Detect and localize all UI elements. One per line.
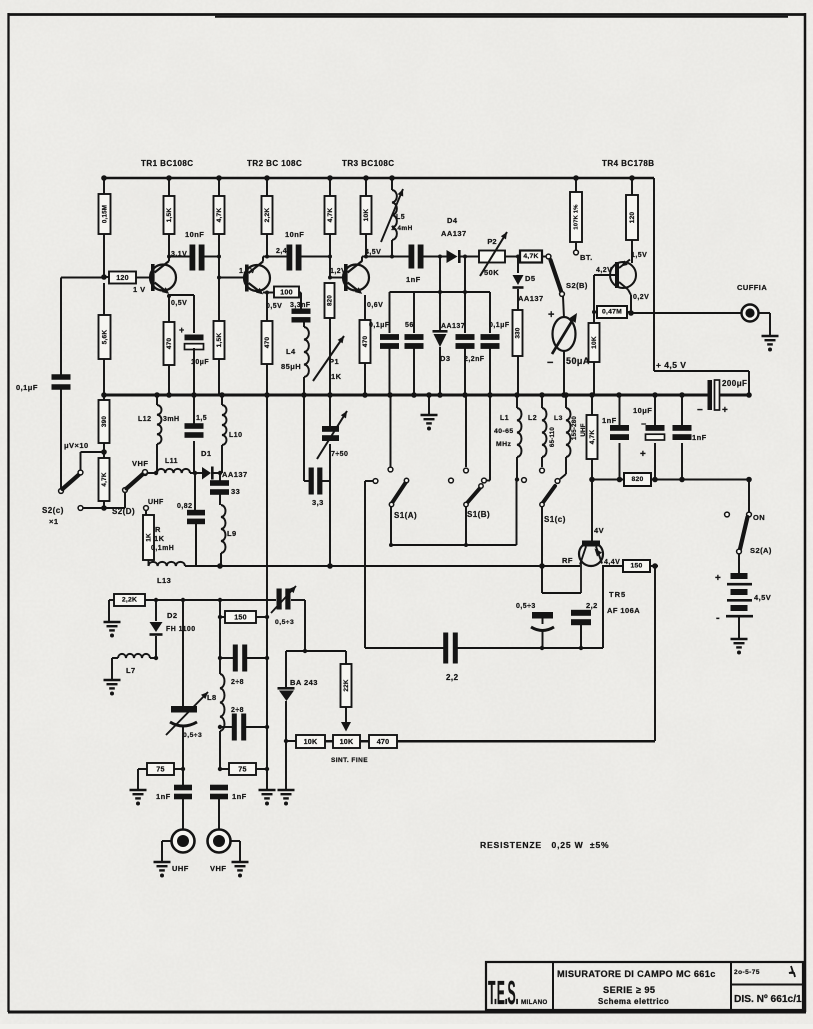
svg-text:0,2V: 0,2V: [633, 294, 649, 301]
svg-text:0,5÷3: 0,5÷3: [183, 732, 202, 739]
svg-text:40-65: 40-65: [494, 428, 514, 435]
svg-text:RF: RF: [562, 556, 573, 565]
svg-text:0,1μF: 0,1μF: [16, 383, 38, 392]
svg-text:L9: L9: [227, 529, 237, 538]
svg-text:S1(B): S1(B): [467, 510, 490, 519]
svg-text:200μF: 200μF: [722, 379, 747, 388]
svg-text:330: 330: [515, 327, 522, 338]
svg-text:L2: L2: [528, 415, 537, 422]
svg-text:155-280: 155-280: [571, 416, 578, 440]
svg-text:0,47M: 0,47M: [602, 309, 622, 316]
svg-text:Schema elettrico: Schema elettrico: [598, 997, 669, 1006]
svg-text:0,5V: 0,5V: [266, 303, 282, 310]
svg-text:4,7K: 4,7K: [216, 208, 223, 223]
svg-text:7÷50: 7÷50: [331, 451, 348, 458]
svg-text:1nF: 1nF: [156, 792, 171, 801]
svg-text:150: 150: [631, 563, 643, 570]
svg-text:0,15M: 0,15M: [102, 205, 109, 223]
svg-text:820: 820: [327, 295, 334, 306]
svg-text:+: +: [722, 405, 728, 416]
svg-text:120: 120: [116, 273, 129, 282]
svg-text:50K: 50K: [484, 268, 499, 277]
svg-text:3mH: 3mH: [163, 416, 180, 423]
svg-text:TR5: TR5: [609, 590, 626, 599]
svg-text:AF 106A: AF 106A: [607, 606, 640, 615]
svg-text:120: 120: [629, 212, 636, 224]
svg-text:CUFFIA: CUFFIA: [737, 283, 767, 292]
svg-text:−: −: [547, 357, 554, 369]
svg-text:50μA: 50μA: [566, 356, 590, 366]
svg-text:2,2K: 2,2K: [122, 597, 137, 604]
svg-text:S2(D): S2(D): [112, 507, 135, 516]
svg-text:4,5V: 4,5V: [365, 249, 381, 256]
svg-text:1K: 1K: [146, 533, 153, 542]
svg-text:BA 243: BA 243: [290, 678, 318, 687]
svg-text:1,1V: 1,1V: [239, 268, 255, 275]
svg-text:MISURATORE DI CAMPO MC 661c: MISURATORE DI CAMPO MC 661c: [557, 969, 716, 979]
svg-text:L5: L5: [396, 214, 405, 221]
svg-text:1nF: 1nF: [692, 433, 707, 442]
svg-text:1nF: 1nF: [406, 275, 421, 284]
svg-text:L11: L11: [165, 458, 178, 465]
svg-text:+: +: [179, 325, 185, 335]
svg-text:4,2V: 4,2V: [596, 267, 612, 274]
svg-text:0,1μF: 0,1μF: [489, 322, 510, 329]
svg-text:TR1 BC108C: TR1 BC108C: [141, 159, 194, 168]
svg-text:D3: D3: [440, 354, 451, 363]
svg-text:S1(c): S1(c): [544, 515, 566, 524]
svg-text:10nF: 10nF: [285, 230, 304, 239]
svg-text:R: R: [155, 525, 161, 534]
svg-text:2,2nF: 2,2nF: [464, 356, 485, 363]
svg-text:85μH: 85μH: [281, 362, 301, 371]
svg-text:UHF: UHF: [148, 499, 164, 506]
svg-text:DIS. Nº 661c/1: DIS. Nº 661c/1: [734, 994, 802, 1005]
svg-text:4,7K: 4,7K: [327, 208, 334, 223]
svg-text:470: 470: [166, 338, 173, 350]
svg-text:VHF: VHF: [210, 864, 226, 873]
svg-text:100: 100: [280, 288, 293, 297]
svg-text:150: 150: [234, 613, 247, 622]
svg-text:0,6V: 0,6V: [367, 302, 383, 309]
svg-text:4,7K: 4,7K: [589, 430, 596, 445]
svg-text:390: 390: [101, 416, 108, 428]
svg-text:L3: L3: [554, 415, 563, 422]
svg-text:UHF: UHF: [172, 864, 189, 873]
svg-text:AA137: AA137: [518, 294, 544, 303]
svg-text:3,3nF: 3,3nF: [290, 302, 311, 309]
svg-text:4V: 4V: [594, 526, 604, 535]
svg-text:S2(A): S2(A): [750, 546, 772, 555]
svg-text:TR4 BC178B: TR4 BC178B: [602, 159, 655, 168]
svg-text:22K: 22K: [343, 679, 350, 692]
svg-text:L7: L7: [126, 666, 136, 675]
svg-text:4,7K: 4,7K: [523, 253, 538, 260]
svg-text:65-110: 65-110: [549, 427, 556, 447]
svg-text:TR3 BC108C: TR3 BC108C: [342, 159, 395, 168]
svg-text:ON: ON: [753, 513, 765, 522]
svg-text:0,1μF: 0,1μF: [369, 322, 390, 329]
svg-text:2÷8: 2÷8: [231, 679, 244, 686]
svg-text:VHF: VHF: [132, 459, 148, 468]
svg-text:1,5V: 1,5V: [631, 252, 647, 259]
svg-text:S2(c): S2(c): [42, 506, 64, 515]
svg-text:4,4V: 4,4V: [604, 559, 620, 566]
svg-text:P2: P2: [487, 237, 496, 246]
svg-text:+ 4,5 V: + 4,5 V: [656, 360, 686, 370]
svg-text:1,4mH: 1,4mH: [391, 225, 413, 232]
svg-text:L10: L10: [229, 432, 242, 439]
svg-text:3,3: 3,3: [312, 498, 324, 507]
svg-text:L4: L4: [286, 347, 296, 356]
svg-text:+: +: [548, 309, 555, 321]
svg-text:1,5K: 1,5K: [216, 333, 223, 348]
svg-text:D5: D5: [525, 274, 536, 283]
svg-text:820: 820: [632, 476, 644, 483]
svg-text:μV×10: μV×10: [64, 441, 89, 450]
svg-text:−: −: [697, 405, 703, 416]
svg-text:MILANO: MILANO: [521, 999, 548, 1006]
svg-text:0,1mH: 0,1mH: [151, 545, 174, 552]
svg-text:2o-5-75: 2o-5-75: [734, 969, 760, 976]
svg-text:470: 470: [377, 737, 390, 746]
svg-text:0,5V: 0,5V: [171, 300, 187, 307]
svg-text:UHF: UHF: [580, 423, 587, 436]
svg-text:L13: L13: [157, 576, 171, 585]
svg-text:2÷8: 2÷8: [231, 707, 244, 714]
svg-text:D4: D4: [447, 216, 458, 225]
svg-text:1nF: 1nF: [602, 416, 617, 425]
svg-text:RESISTENZE 0,25 W ±5%: RESISTENZE 0,25 W ±5%: [480, 840, 609, 850]
svg-text:10K: 10K: [591, 336, 598, 349]
svg-text:10K: 10K: [304, 737, 318, 746]
svg-text:5,6K: 5,6K: [102, 330, 109, 345]
svg-text:10K: 10K: [363, 209, 370, 222]
svg-text:1K: 1K: [154, 534, 165, 543]
svg-text:AA137: AA137: [441, 323, 465, 330]
svg-text:10K: 10K: [340, 737, 354, 746]
svg-text:4,5V: 4,5V: [754, 593, 771, 602]
svg-text:2,2: 2,2: [586, 601, 598, 610]
svg-text:75: 75: [156, 765, 164, 774]
svg-text:75: 75: [238, 765, 246, 774]
svg-text:AA137: AA137: [441, 229, 467, 238]
svg-text:MHz: MHz: [496, 441, 511, 448]
svg-text:-: -: [716, 612, 720, 624]
svg-text:FH 1100: FH 1100: [166, 626, 196, 633]
svg-text:2,2: 2,2: [446, 673, 459, 682]
svg-text:56: 56: [405, 322, 414, 329]
svg-text:BT.: BT.: [580, 253, 593, 262]
svg-text:L1: L1: [500, 415, 509, 422]
svg-text:10μF: 10μF: [633, 406, 652, 415]
svg-text:107K 1%: 107K 1%: [574, 204, 580, 229]
svg-text:10nF: 10nF: [185, 230, 204, 239]
svg-text:D1: D1: [201, 449, 212, 458]
svg-text:SINT. FINE: SINT. FINE: [331, 757, 368, 764]
svg-text:470: 470: [362, 336, 369, 348]
svg-text:1,5: 1,5: [196, 415, 207, 422]
svg-text:S2(B): S2(B): [566, 281, 588, 290]
svg-text:+: +: [715, 573, 721, 584]
svg-text:1nF: 1nF: [232, 792, 247, 801]
svg-text:T.E.S.: T.E.S.: [488, 975, 518, 1012]
svg-text:1 V: 1 V: [133, 285, 146, 294]
svg-text:×1: ×1: [49, 517, 58, 526]
svg-text:SERIE ≥ 95: SERIE ≥ 95: [603, 985, 655, 995]
svg-text:L8: L8: [207, 693, 217, 702]
svg-text:1K: 1K: [331, 372, 342, 381]
svg-text:AA137: AA137: [222, 470, 248, 479]
svg-text:+: +: [640, 449, 646, 460]
svg-text:L12: L12: [138, 416, 151, 423]
svg-text:0,5÷3: 0,5÷3: [516, 603, 536, 610]
svg-text:33: 33: [231, 487, 240, 496]
svg-text:D2: D2: [167, 611, 178, 620]
svg-text:S1(A): S1(A): [394, 511, 417, 520]
svg-text:0,5÷3: 0,5÷3: [275, 619, 294, 626]
svg-text:1,5K: 1,5K: [166, 208, 173, 223]
svg-text:4,7K: 4,7K: [101, 472, 108, 486]
svg-text:0,82: 0,82: [177, 503, 192, 510]
svg-text:2,2K: 2,2K: [264, 208, 271, 223]
svg-text:TR2 BC 108C: TR2 BC 108C: [247, 159, 302, 168]
svg-text:470: 470: [264, 337, 271, 349]
